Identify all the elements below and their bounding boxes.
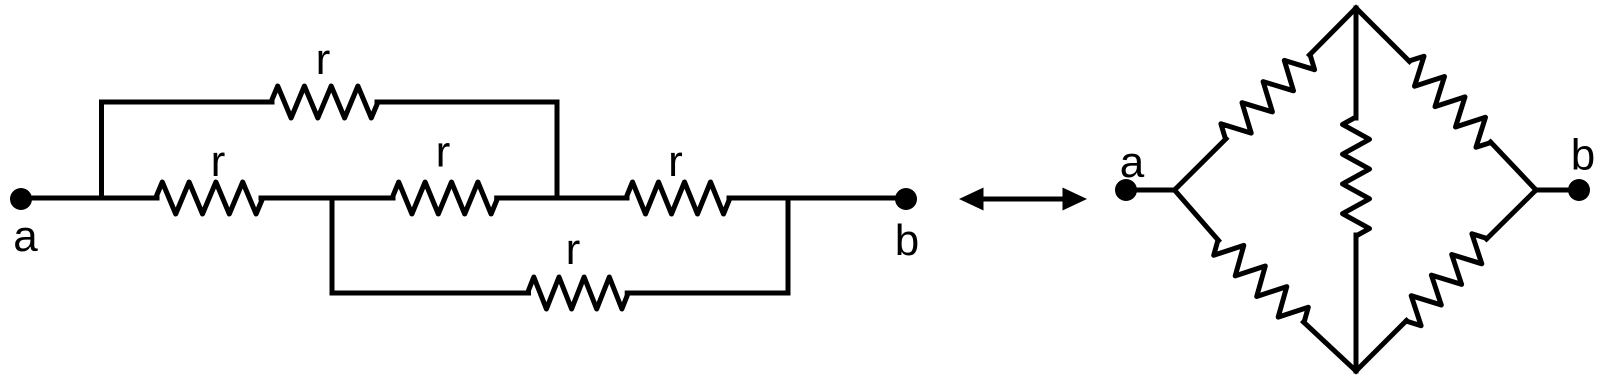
svg-text:r: r	[436, 128, 451, 177]
wire a to left bridge junction	[1126, 188, 1175, 193]
wire left junction to R6 (upper-left lead)	[1175, 139, 1227, 190]
resistor R1 (top branch, value r)	[271, 86, 378, 118]
wire R3 to R4 (through top-branch junction)	[497, 196, 627, 201]
resistor R8 (bridge lower-left arm)	[1214, 240, 1309, 323]
node a terminal dot (bridge)	[1115, 179, 1137, 201]
wire top branch left horizontal	[102, 100, 273, 105]
wire R7 to right junction (upper-right lead)	[1491, 142, 1537, 190]
wire top branch right vertical down to main line	[555, 102, 560, 198]
wire node a to resistor R2	[21, 196, 157, 201]
resistor R6 (bridge upper-left arm)	[1221, 55, 1315, 140]
svg-text:b: b	[1571, 131, 1595, 180]
wire top apex to R7 (upper-right lead)	[1356, 8, 1410, 62]
svg-text:r: r	[316, 35, 331, 84]
wire bottom branch right horizontal	[627, 291, 788, 296]
wire top branch right horizontal	[377, 100, 557, 105]
resistor R4 (right, value r)	[626, 182, 730, 214]
resistor R2 (left, value r)	[156, 182, 263, 214]
wire bottom apex to R9 (lower-right lead)	[1356, 321, 1407, 372]
svg-text:r: r	[566, 225, 581, 274]
svg-text:r: r	[668, 137, 683, 186]
wire R10 to bottom apex (middle resistor bottom lead)	[1354, 235, 1359, 371]
resistor R7 (bridge upper-right arm)	[1409, 56, 1491, 147]
resistor R9 (bridge lower-right arm)	[1406, 234, 1487, 326]
wire bottom branch right vertical up to main line	[786, 198, 791, 293]
wire top apex to R10 (middle resistor top lead)	[1354, 8, 1359, 118]
svg-text:r: r	[211, 137, 226, 186]
wire R2 to R3 (through bottom-branch junction)	[261, 196, 393, 201]
resistor R3 (middle, value r)	[392, 182, 498, 214]
svg-text:a: a	[13, 212, 38, 261]
node a terminal dot (left circuit)	[10, 188, 32, 210]
node b terminal dot (left circuit)	[895, 188, 917, 210]
resistor R5 (bottom branch, value r)	[528, 277, 629, 309]
node b terminal dot (bridge)	[1568, 179, 1590, 201]
wire bottom branch left horizontal	[332, 291, 529, 296]
svg-text:b: b	[895, 216, 919, 265]
wire right bridge junction to node b	[1536, 188, 1579, 193]
wire left junction to R8 (lower-left lead)	[1175, 190, 1219, 241]
wire R9 to right junction (lower-right lead)	[1487, 190, 1537, 239]
wire R8 to bottom apex (lower-left lead)	[1304, 322, 1357, 371]
double-headed equivalence arrow	[959, 188, 1087, 211]
wire R6 to top apex (upper-left lead)	[1310, 8, 1357, 55]
wire R4 to node b	[729, 196, 906, 201]
resistor R10 (bridge middle vertical)	[1343, 117, 1370, 236]
svg-text:a: a	[1120, 138, 1145, 187]
wire junction down vertical (bottom branch)	[330, 198, 335, 293]
wire junction up-left vertical (top branch)	[99, 102, 104, 198]
